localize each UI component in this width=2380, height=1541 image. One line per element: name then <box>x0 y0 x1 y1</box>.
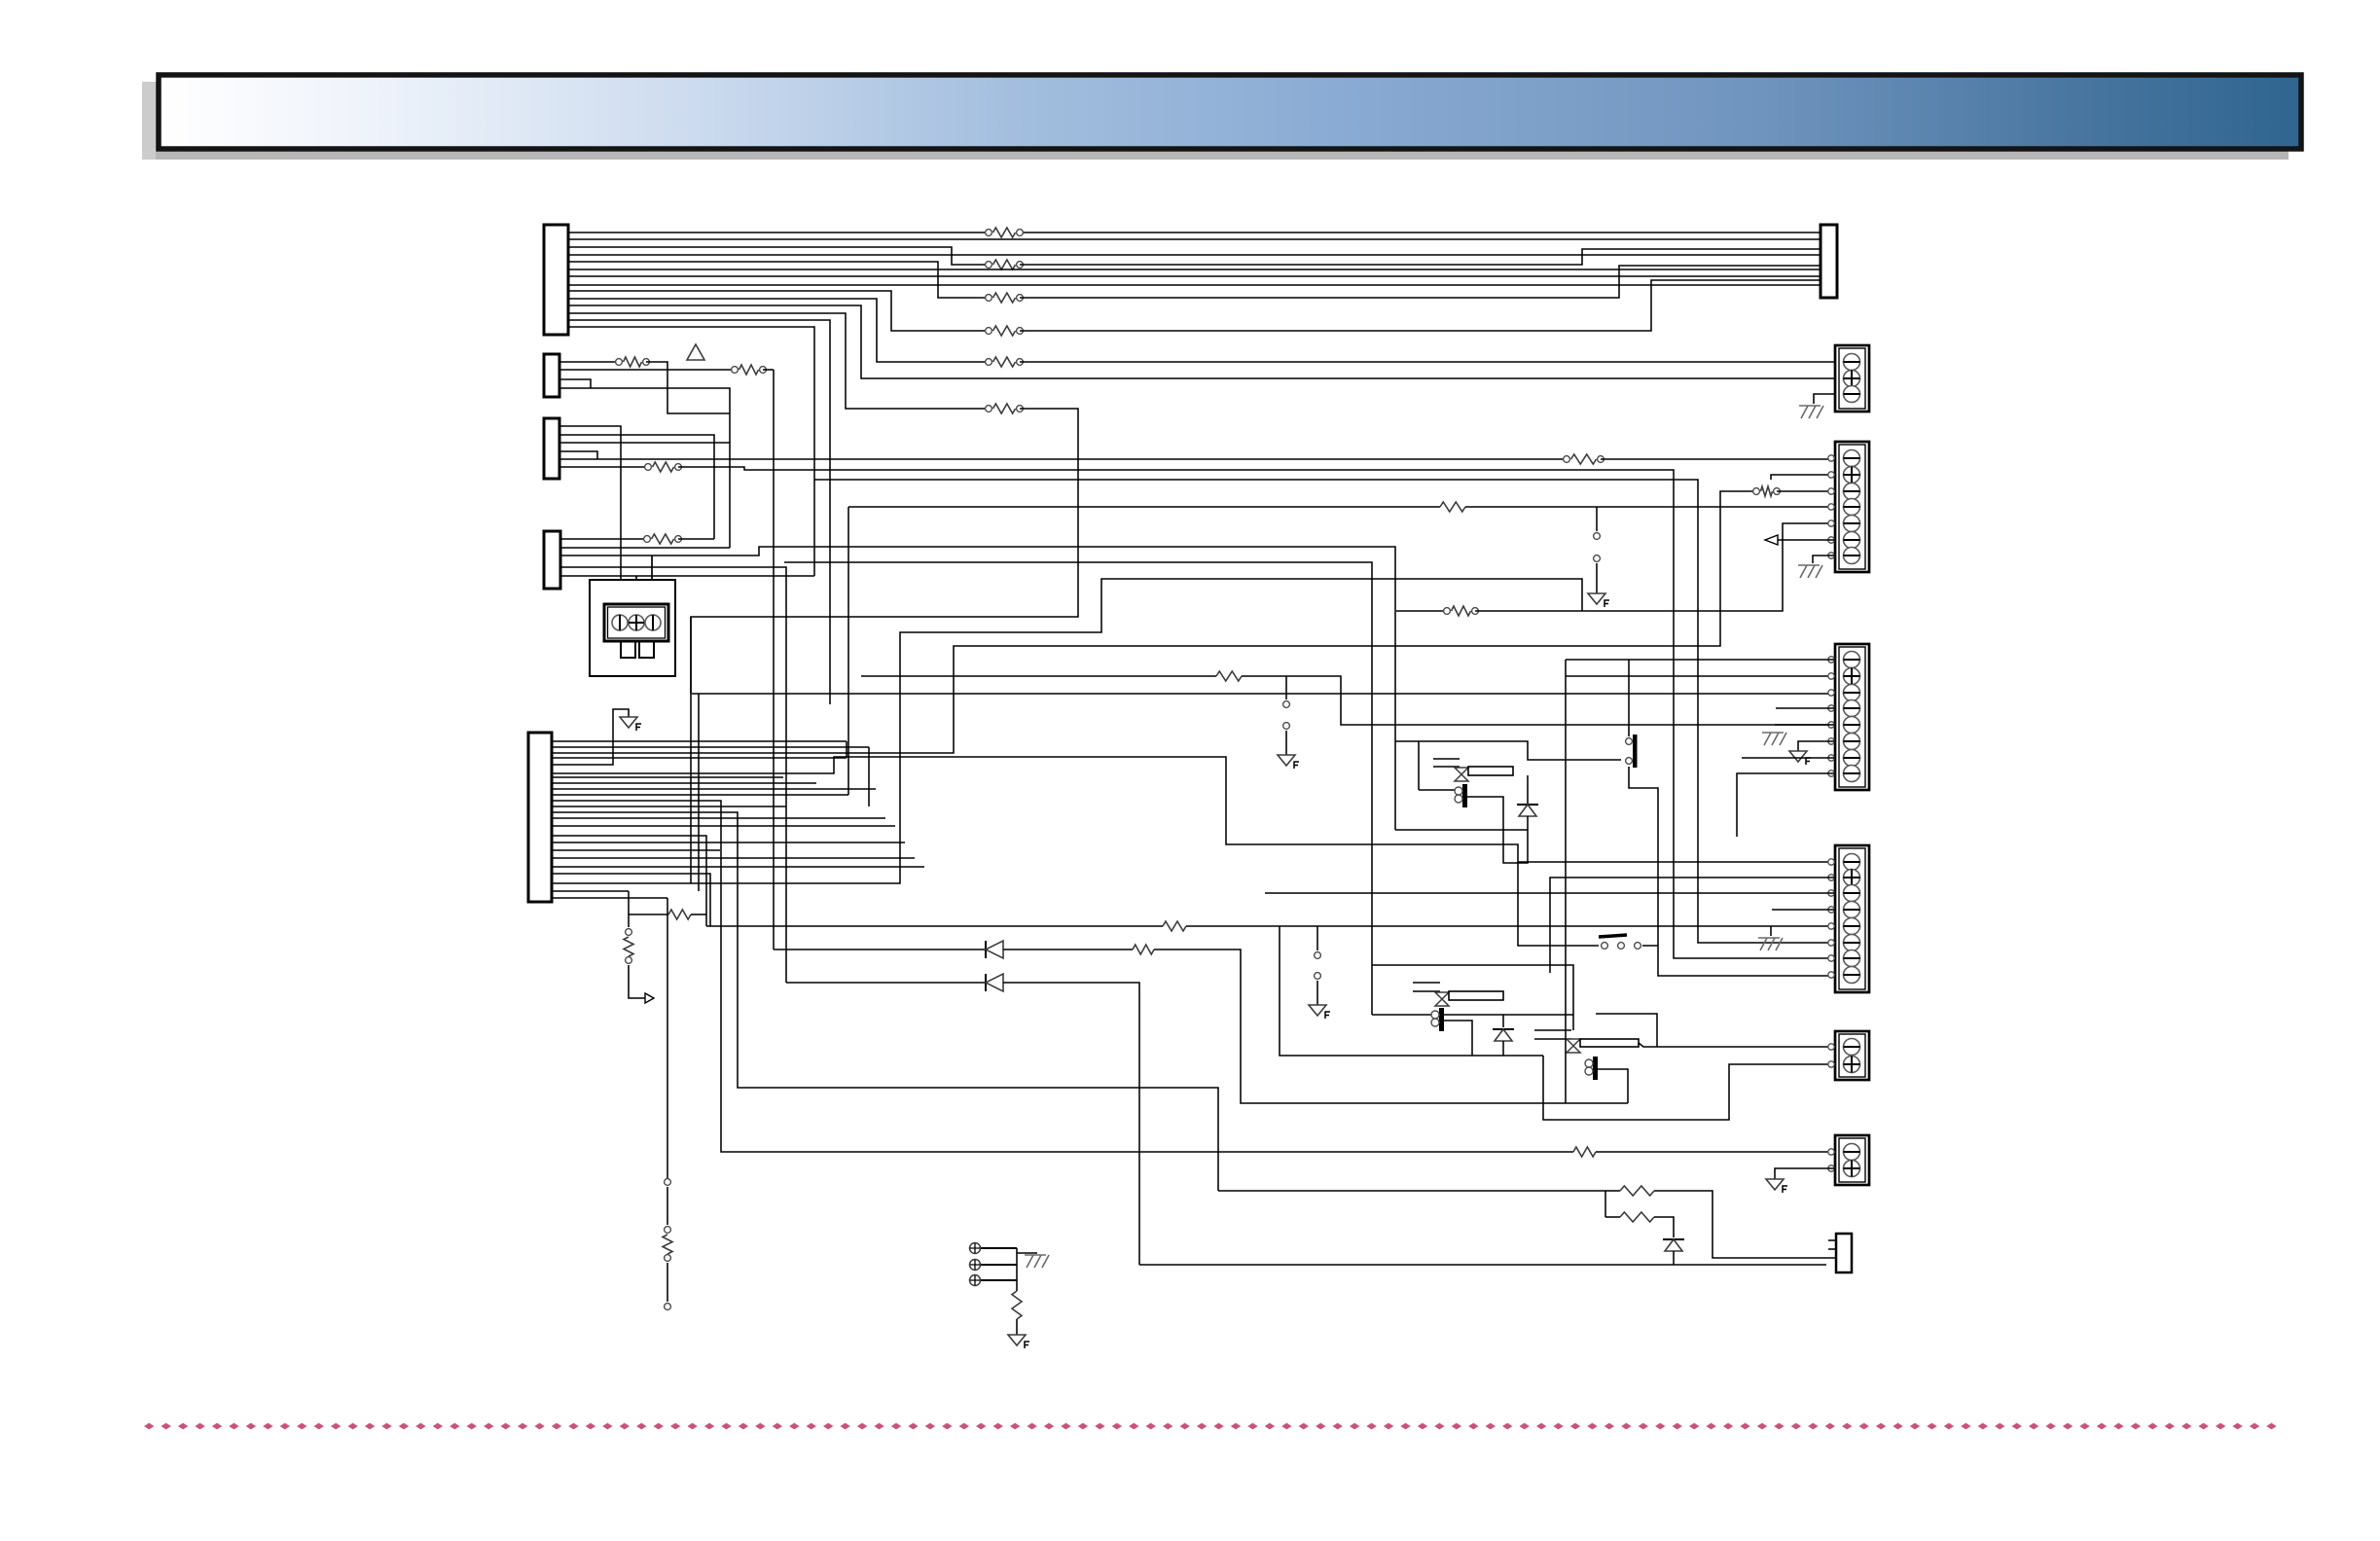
wire bus w11 to TB1-2 <box>568 305 1835 378</box>
connector J2 <box>1821 225 1837 298</box>
wire J5-1 via resistor R11 <box>560 538 647 540</box>
wire stub <box>1828 1248 1836 1250</box>
relay coil <box>1468 767 1513 775</box>
wire <box>1598 1069 1628 1103</box>
connector J3 <box>544 354 559 397</box>
wire stub to power entry pin E <box>635 576 637 604</box>
wire <box>1673 1251 1675 1265</box>
wire branch to terminal <box>1771 475 1835 480</box>
wire bus w8 <box>568 284 1821 286</box>
contact <box>1455 768 1468 781</box>
wire stub <box>1772 909 1835 911</box>
test point TP3 <box>1315 952 1321 959</box>
wire bus w14 <box>568 327 814 576</box>
resistor R20 <box>629 914 668 915</box>
triangle symbol <box>687 344 704 360</box>
wire J6-17 <box>552 842 905 843</box>
wire J6-11 via resistor R19 <box>552 801 1573 1152</box>
wire net M with resistor R16 <box>706 925 1163 927</box>
wire bus w9 via resistor R4 <box>568 291 989 331</box>
wire <box>1016 1319 1018 1335</box>
wire J6-4 <box>552 757 847 759</box>
wire J6-5 to ground <box>552 709 629 765</box>
wire J4-1 <box>559 426 621 604</box>
wire branch <box>1605 1191 1606 1217</box>
wire J6-8 <box>552 782 816 784</box>
contact <box>1567 1039 1580 1053</box>
wire net H with diode D2 <box>786 982 986 984</box>
wire loop top <box>1596 1014 1657 1047</box>
wire J6-12 <box>552 806 786 807</box>
power entry receptacle <box>604 604 668 641</box>
wire <box>846 741 847 758</box>
wire <box>1502 1015 1504 1027</box>
chassis ground G1 <box>1758 938 1783 950</box>
wire J6-23 <box>552 890 629 892</box>
dashed separator <box>144 1423 2277 1430</box>
test point TP2 <box>1285 676 1287 699</box>
wire J6-21 <box>552 874 710 926</box>
wire <box>1770 926 1772 936</box>
snubber network N2 <box>1372 965 1573 1030</box>
wire net G trunk <box>773 370 775 950</box>
wire J4-6 via resistor R10 <box>559 466 648 468</box>
arrow <box>1765 535 1778 545</box>
ground F4 <box>1309 1005 1326 1016</box>
ground F2 <box>620 717 637 728</box>
wire <box>1316 926 1318 950</box>
wire bus w4 <box>568 254 1821 256</box>
wire J4-5 via resistor R9 to J2 block <box>559 458 1567 460</box>
connector pins P1 <box>970 1243 981 1254</box>
wire J3-3 stub <box>559 379 591 388</box>
wire <box>1316 981 1318 1005</box>
wire bus w7 <box>568 275 1821 277</box>
wire <box>1550 878 1835 973</box>
resistor R13 vertical with test points <box>667 898 668 1178</box>
connector J1 <box>544 225 568 335</box>
relay contact stubs <box>1413 982 1440 984</box>
wire TB3 pin2 <box>1566 675 1835 677</box>
title banner shadow <box>142 82 2289 160</box>
wire J5-2 <box>560 547 730 549</box>
wire loop <box>1280 926 1543 1056</box>
wire <box>1444 1021 1472 1056</box>
pin L <box>612 615 628 630</box>
capacitor C2 <box>1439 1008 1444 1031</box>
wire loop <box>1543 1056 1835 1120</box>
wire bus w10 via resistor R5 <box>568 299 989 362</box>
wire bus w3 via resistor R2 <box>568 247 989 265</box>
wire net C switch chain <box>1518 862 1599 946</box>
wire <box>1629 767 1658 946</box>
wire net K bottom <box>1218 1190 1605 1192</box>
wire net y521 to TB2 <box>848 506 1440 508</box>
terminal block TB5 <box>1828 1031 1869 1080</box>
contact <box>1435 992 1449 1006</box>
connector J4 <box>544 418 559 479</box>
wire stub <box>1828 1239 1836 1241</box>
wire <box>847 507 849 795</box>
diode D5 <box>1493 1028 1514 1030</box>
wire loop bottom <box>1372 1014 1573 1016</box>
wire J6-13 <box>552 812 1218 1191</box>
wire J6-24 <box>552 897 667 899</box>
wire J6-1 <box>552 740 847 742</box>
wire J5-3 <box>560 547 1395 830</box>
wire <box>1467 797 1528 863</box>
wire net V718 <box>698 694 700 891</box>
wire J6-14 <box>552 817 885 819</box>
wire stub <box>1596 507 1598 531</box>
capacitor C1 <box>1462 784 1467 807</box>
wire J5-4 <box>560 567 786 983</box>
pin E <box>629 615 644 630</box>
wire bus w6 <box>568 269 1821 270</box>
wire J6-22 to TB2-5 <box>552 579 1582 883</box>
wire net D <box>861 675 1216 677</box>
terminal block TB3 <box>1828 644 1869 790</box>
chassis ground G4 <box>1762 733 1786 745</box>
wire net F <box>692 693 1835 695</box>
fuse tab <box>621 641 635 658</box>
wire arrow <box>1778 539 1835 541</box>
terminal block TB6 <box>1828 1135 1869 1185</box>
snubber network N1 <box>1395 829 1528 831</box>
jumper circles <box>1626 738 1633 745</box>
wire J6-9 <box>552 788 876 790</box>
relay contact stubs <box>1433 758 1460 760</box>
snubber network N3 <box>1534 1029 1571 1031</box>
wire bus <box>1016 1248 1018 1291</box>
wire <box>1565 660 1567 1103</box>
wire J6-18 <box>552 849 720 851</box>
pin N <box>645 615 661 630</box>
relay coil <box>1449 991 1503 1000</box>
diode D1 <box>985 941 987 958</box>
wire J3-2 via resistor R8 <box>559 369 735 371</box>
resistor R12 vertical with test points <box>628 891 630 927</box>
resistor R15 <box>1620 1212 1654 1222</box>
diode D3 <box>1663 1238 1684 1240</box>
arrow terminal <box>645 993 654 1003</box>
wire J4-4 stub <box>559 451 597 459</box>
wire <box>1814 394 1835 404</box>
switch S1 <box>1602 943 1608 950</box>
wire <box>1798 741 1835 751</box>
wire J6-6 net A <box>552 757 1835 862</box>
wire net E2 <box>784 562 1372 1015</box>
ground F3 <box>1278 755 1295 766</box>
wire <box>1265 892 1835 894</box>
wire J3-1 via resistor R7 <box>559 361 619 363</box>
wire to J9 <box>1639 1043 1835 1047</box>
diode D2 <box>985 974 987 991</box>
wire <box>1642 946 1835 976</box>
relay coil <box>1580 1039 1639 1047</box>
terminal block TB1 <box>1835 345 1869 412</box>
terminal block TB4 <box>1828 845 1869 992</box>
wire <box>1596 563 1598 593</box>
wire J6-15 <box>552 825 895 827</box>
wire stub to power entry pin N <box>651 555 653 604</box>
diode D4 <box>1517 804 1538 806</box>
ground F6 <box>1766 1179 1784 1190</box>
wire <box>1742 757 1835 759</box>
test point TP1 <box>1594 533 1601 540</box>
resistor R14 <box>1605 1190 1620 1192</box>
wire net L bottom long <box>868 747 870 806</box>
ground F1 <box>1588 593 1605 604</box>
title banner bar <box>159 75 2301 149</box>
wire bus w13 <box>568 320 830 704</box>
connector J7 <box>1836 1234 1852 1272</box>
chassis ground G3 <box>1798 565 1822 578</box>
wire bus w12 via resistor R6 <box>568 313 989 409</box>
wire J4-3 <box>559 443 730 548</box>
wire net to TB4-6 <box>814 480 1835 943</box>
capacitor C3 <box>1593 1057 1598 1080</box>
wire bus w2 <box>568 238 1821 240</box>
wire <box>1628 660 1630 736</box>
terminal block TB2 <box>1828 442 1869 572</box>
power entry box <box>590 580 675 676</box>
wire <box>1527 775 1529 804</box>
connector J6 <box>528 733 552 902</box>
ground F7 <box>1008 1335 1026 1345</box>
wire <box>1737 773 1835 837</box>
wire J6-10 <box>552 794 848 796</box>
ground F5 <box>1789 751 1807 762</box>
connector J5 <box>544 531 560 589</box>
wire net V710 <box>690 617 692 883</box>
wire J6-2 <box>552 746 869 748</box>
wire bus w1 J1 to J2 with resistor R1 <box>568 232 989 233</box>
wire bus w5 via resistor R3 <box>568 262 989 298</box>
wire J6-20 <box>552 866 924 868</box>
wire <box>1775 724 1835 726</box>
wire net TB3 pin1 <box>1566 659 1835 661</box>
wire J6-3 via resistor R18 <box>552 491 1756 753</box>
chassis ground G2 <box>1799 406 1823 418</box>
wire <box>1776 707 1835 709</box>
wire <box>1813 555 1835 563</box>
wire J5-5 <box>560 575 814 577</box>
wire net R15 row <box>1396 610 1447 612</box>
wire <box>1017 1252 1037 1254</box>
wire net G with diode D1 <box>774 949 986 950</box>
wire <box>1775 1168 1835 1179</box>
resistor R17 <box>1012 1291 1022 1319</box>
fuse tab <box>639 641 654 658</box>
wire J6-16 <box>552 836 706 926</box>
wire J4-2 <box>559 435 714 539</box>
wire J6-7 <box>552 776 783 778</box>
chassis ground G5 <box>1025 1255 1049 1268</box>
wire <box>1419 789 1460 791</box>
wire J6-19 <box>552 857 915 859</box>
wire J3-4 <box>559 388 730 443</box>
